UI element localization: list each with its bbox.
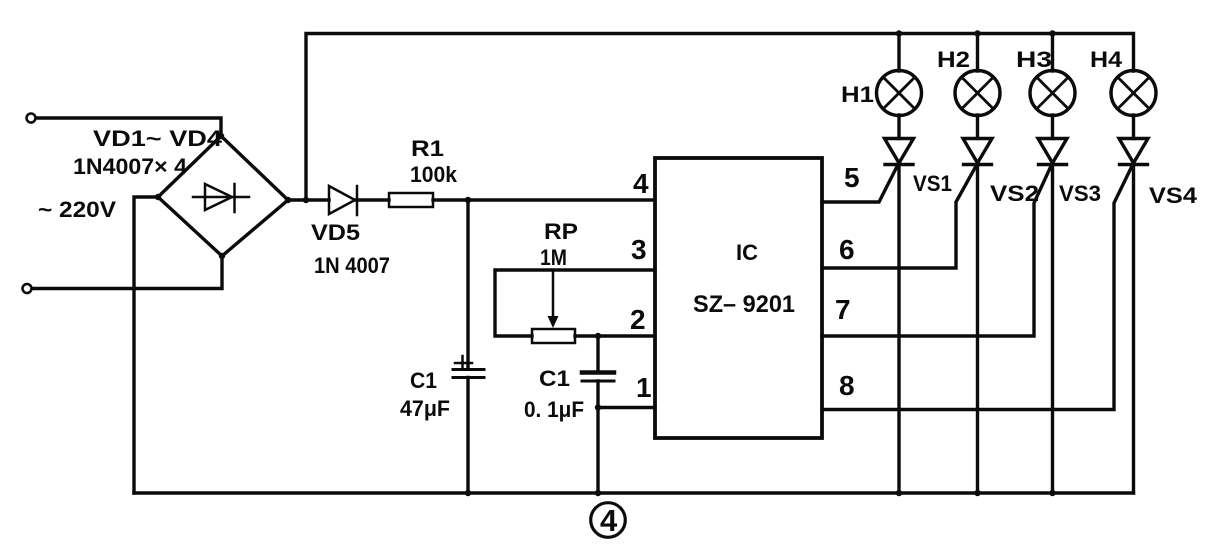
node junction top-rail riser (303, 197, 309, 203)
wire VS1 cathode to bottom rail (897, 165, 900, 494)
node junction pin1 (595, 404, 601, 410)
svg-text:SZ– 9201: SZ– 9201 (693, 291, 795, 318)
wire lamp H1 to VS1 (897, 115, 900, 139)
wire C2 top lead (596, 336, 599, 372)
lamp H2 (955, 71, 1000, 116)
wire lamp H3 top lead (1051, 34, 1054, 72)
wire lamp H4 to VS4 (1132, 115, 1135, 139)
node junction pin2/C2 (595, 333, 601, 339)
node top rail H3 (1049, 30, 1055, 36)
node bottom rail VS2 (974, 490, 980, 496)
node junction C1 tap (465, 197, 471, 203)
lamp H1 (877, 71, 922, 116)
wire R1 to IC pin 4 (433, 198, 655, 201)
svg-text:3: 3 (631, 234, 647, 265)
svg-text:H4: H4 (1090, 47, 1123, 72)
thyristor VS3 (1038, 139, 1067, 165)
svg-text:4: 4 (600, 503, 618, 538)
svg-text:R1: R1 (411, 136, 444, 161)
svg-text:VD1~ VD4: VD1~ VD4 (93, 126, 223, 151)
svg-text:C1: C1 (410, 368, 437, 393)
svg-text:1M: 1M (540, 245, 567, 270)
wire VD5 to R1 (355, 198, 389, 201)
thyristor VS4 (1119, 139, 1148, 165)
wire IC pin 8 to VS4 gate (822, 166, 1132, 410)
svg-text:4: 4 (633, 168, 649, 199)
bridge inner diode (193, 184, 249, 212)
wire IC pin 6 to VS2 gate (822, 166, 976, 268)
svg-text:1N4007× 4: 1N4007× 4 (73, 154, 188, 179)
wire C1 bottom lead (466, 378, 469, 494)
wire lamp H2 top lead (976, 34, 979, 72)
node bridge left vertex (155, 194, 161, 200)
svg-text:5: 5 (844, 162, 860, 193)
diode VD5 (329, 186, 357, 215)
wire riser to top rail (306, 34, 1134, 201)
bridge rectifier VD1~VD4 diamond (158, 136, 288, 256)
wire C2 bottom lead to rail (596, 381, 599, 493)
node C1 on bottom rail (465, 490, 471, 496)
wire IC pin 7 to VS3 gate (822, 166, 1051, 336)
thyristor VS2 (963, 139, 992, 165)
node top rail H2 (974, 30, 980, 36)
svg-text:RP: RP (544, 219, 578, 244)
node bridge bottom vertex (219, 253, 225, 259)
figure number circle (591, 503, 626, 538)
svg-text:H1: H1 (841, 82, 874, 107)
wire bottom rail (134, 491, 1134, 494)
wire VS2 cathode to bottom rail (976, 165, 979, 494)
potentiometer RP wiper arrow (548, 270, 559, 328)
potentiometer RP body (532, 329, 575, 343)
terminal bottom-left (23, 284, 32, 293)
svg-text:47μF: 47μF (400, 396, 450, 421)
svg-text:6: 6 (839, 234, 855, 265)
svg-text:8: 8 (839, 370, 855, 401)
wire IC pin 3 to RP loop (495, 270, 655, 336)
node top rail H1 (896, 30, 902, 36)
svg-text:1N 4007: 1N 4007 (314, 253, 390, 278)
svg-text:VS2: VS2 (990, 181, 1039, 206)
wire IC pin 1 (598, 406, 655, 409)
wire lamp H1 top lead (897, 34, 900, 72)
svg-text:H2: H2 (937, 47, 970, 72)
node bridge right vertex (285, 197, 291, 203)
resistor R1 (389, 193, 433, 207)
svg-text:IC: IC (736, 240, 758, 265)
wire C1 top lead (466, 200, 469, 368)
svg-text:VS1: VS1 (913, 171, 952, 196)
node bottom rail VS1 (896, 490, 902, 496)
node bottom rail VS3 (1049, 490, 1055, 496)
wire VS3 cathode to bottom rail (1051, 165, 1054, 494)
node C2 on bottom rail (595, 490, 601, 496)
svg-text:100k: 100k (410, 162, 458, 187)
svg-text:~ 220V: ~ 220V (38, 197, 116, 222)
svg-text:VD5: VD5 (311, 220, 360, 245)
wire lamp H2 to VS2 (976, 115, 979, 139)
svg-text:H3: H3 (1016, 47, 1052, 72)
node bridge top vertex (218, 133, 224, 139)
op-amp IC SZ-9201 box (655, 158, 822, 438)
lamp H3 (1030, 71, 1075, 116)
svg-text:VS3: VS3 (1059, 181, 1101, 206)
svg-text:VS4: VS4 (1149, 183, 1198, 208)
wire VS4 cathode to bottom rail (1132, 165, 1135, 494)
wire bridge right vertex to VD5 (288, 198, 329, 201)
svg-text:7: 7 (835, 294, 851, 325)
wire bridge left vertex to bottom rail (134, 197, 158, 493)
wire IC pin 5 to VS1 gate (822, 165, 898, 203)
svg-text:0. 1μF: 0. 1μF (524, 397, 584, 422)
capacitor C1 47uF (453, 356, 484, 378)
wire bottom terminal to bridge bottom (32, 256, 222, 289)
capacitor C1 0.1uF (582, 373, 614, 382)
lamp H4 (1111, 71, 1156, 116)
svg-text:1: 1 (636, 372, 652, 403)
terminal top-left (27, 114, 36, 123)
svg-text:C1: C1 (539, 366, 570, 391)
thyristor VS1 (885, 139, 914, 165)
wire top terminal to bridge top (36, 118, 221, 136)
wire lamp H3 to VS3 (1051, 115, 1054, 139)
svg-text:2: 2 (630, 304, 646, 335)
wire RP to IC pin 2 (575, 334, 655, 337)
